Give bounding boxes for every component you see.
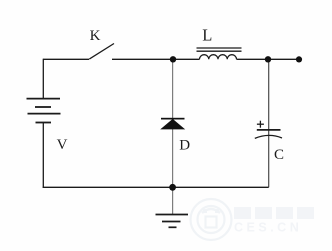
svg-text:L: L [202,26,212,45]
svg-text:K: K [90,28,101,44]
svg-text:D: D [179,137,190,153]
svg-text:V: V [57,137,68,153]
svg-text:CES.CN: CES.CN [234,221,302,235]
svg-text:C: C [274,147,284,163]
